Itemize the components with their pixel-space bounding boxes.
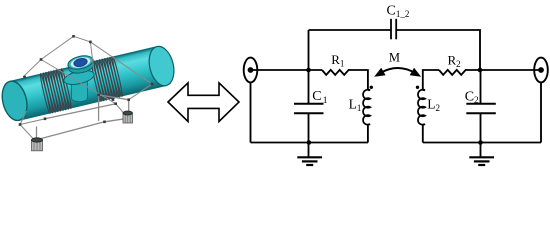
wire port2 down [540, 82, 542, 142]
port ring top face [67, 54, 95, 72]
L1 polarity dot [370, 86, 373, 89]
wire R1 to L1 corner [352, 70, 368, 90]
frame link right [116, 104, 128, 119]
svg-text:L1: L1 [349, 97, 362, 114]
wire C1 bottom [308, 113, 310, 157]
wire port1 to R1 [251, 69, 323, 71]
port ring white annulus [70, 56, 91, 70]
bottom rail left [251, 142, 368, 144]
port P2 [534, 58, 548, 83]
left end cap [0, 79, 31, 123]
capacitor C1_2 [391, 19, 396, 40]
svg-text:C2: C2 [465, 89, 479, 106]
wire C2 bottom [480, 113, 482, 157]
equivalence double arrow [168, 83, 239, 122]
suspension wire right [74, 36, 94, 71]
wire C1 top [308, 70, 310, 103]
capacitor C2 [466, 104, 496, 114]
suspension wire left [23, 36, 74, 77]
svg-text:C1_2: C1_2 [387, 3, 410, 19]
resonator 3D model [0, 35, 178, 151]
mutual coupling arc M [380, 68, 417, 74]
wire node A up [308, 30, 310, 70]
wire L1 bottom [367, 124, 369, 143]
svg-text:C1: C1 [312, 89, 328, 106]
wire L2 corner to R2 [423, 70, 439, 90]
frame link right cap [129, 84, 152, 100]
right end cap [145, 44, 177, 88]
svg-text:L2: L2 [427, 96, 440, 113]
frame nodes [19, 35, 154, 142]
frame strut left weight [36, 127, 38, 141]
ground G1 [297, 157, 322, 165]
L2 polarity dot [416, 86, 419, 89]
svg-text:M: M [389, 50, 400, 64]
top rail left [309, 29, 392, 31]
port P2 dot [538, 67, 544, 73]
weight right [123, 111, 133, 123]
port ring blue bore [73, 57, 88, 68]
resistor R2 [439, 70, 469, 75]
top rail right [396, 30, 480, 70]
frame rail mid [45, 104, 116, 119]
frame leg left [20, 111, 35, 140]
node A ground dot [307, 140, 312, 145]
wire R2 to port2 [469, 69, 541, 71]
frame rail front [35, 118, 128, 140]
ground G2 [469, 157, 494, 165]
frame strut right weight [128, 100, 130, 112]
port P1 dot [248, 67, 254, 73]
weight left [32, 138, 43, 151]
inductor L2 [418, 90, 425, 125]
inductor L1 [363, 90, 370, 125]
M arrowhead right [410, 68, 421, 77]
frame strut center [98, 95, 100, 121]
coil winding right [90, 56, 123, 101]
collar flange at tube base [62, 68, 95, 87]
wire port1 down [250, 82, 252, 142]
wire L2 bottom [422, 124, 424, 143]
frame leg left upper [20, 119, 45, 125]
coil winding left [39, 68, 72, 113]
frame rail back right [99, 95, 129, 100]
suspension wire cross [41, 60, 116, 104]
port P1 [244, 58, 258, 83]
node B ground dot [478, 140, 483, 145]
tube lower end on cylinder face [71, 80, 87, 102]
capacitor C1 [294, 104, 324, 114]
node B dot [478, 68, 483, 73]
M arrowhead left [374, 68, 385, 77]
wire C2 top [480, 70, 482, 103]
resistor R1 [322, 70, 352, 75]
bottom rail right [423, 142, 541, 144]
suspension wire right long [90, 42, 152, 84]
vertical port tube wall [67, 54, 96, 76]
svg-text:R2: R2 [448, 53, 461, 70]
svg-text:R1: R1 [331, 52, 344, 69]
node A dot [306, 68, 311, 73]
main cylinder body [0, 43, 178, 123]
